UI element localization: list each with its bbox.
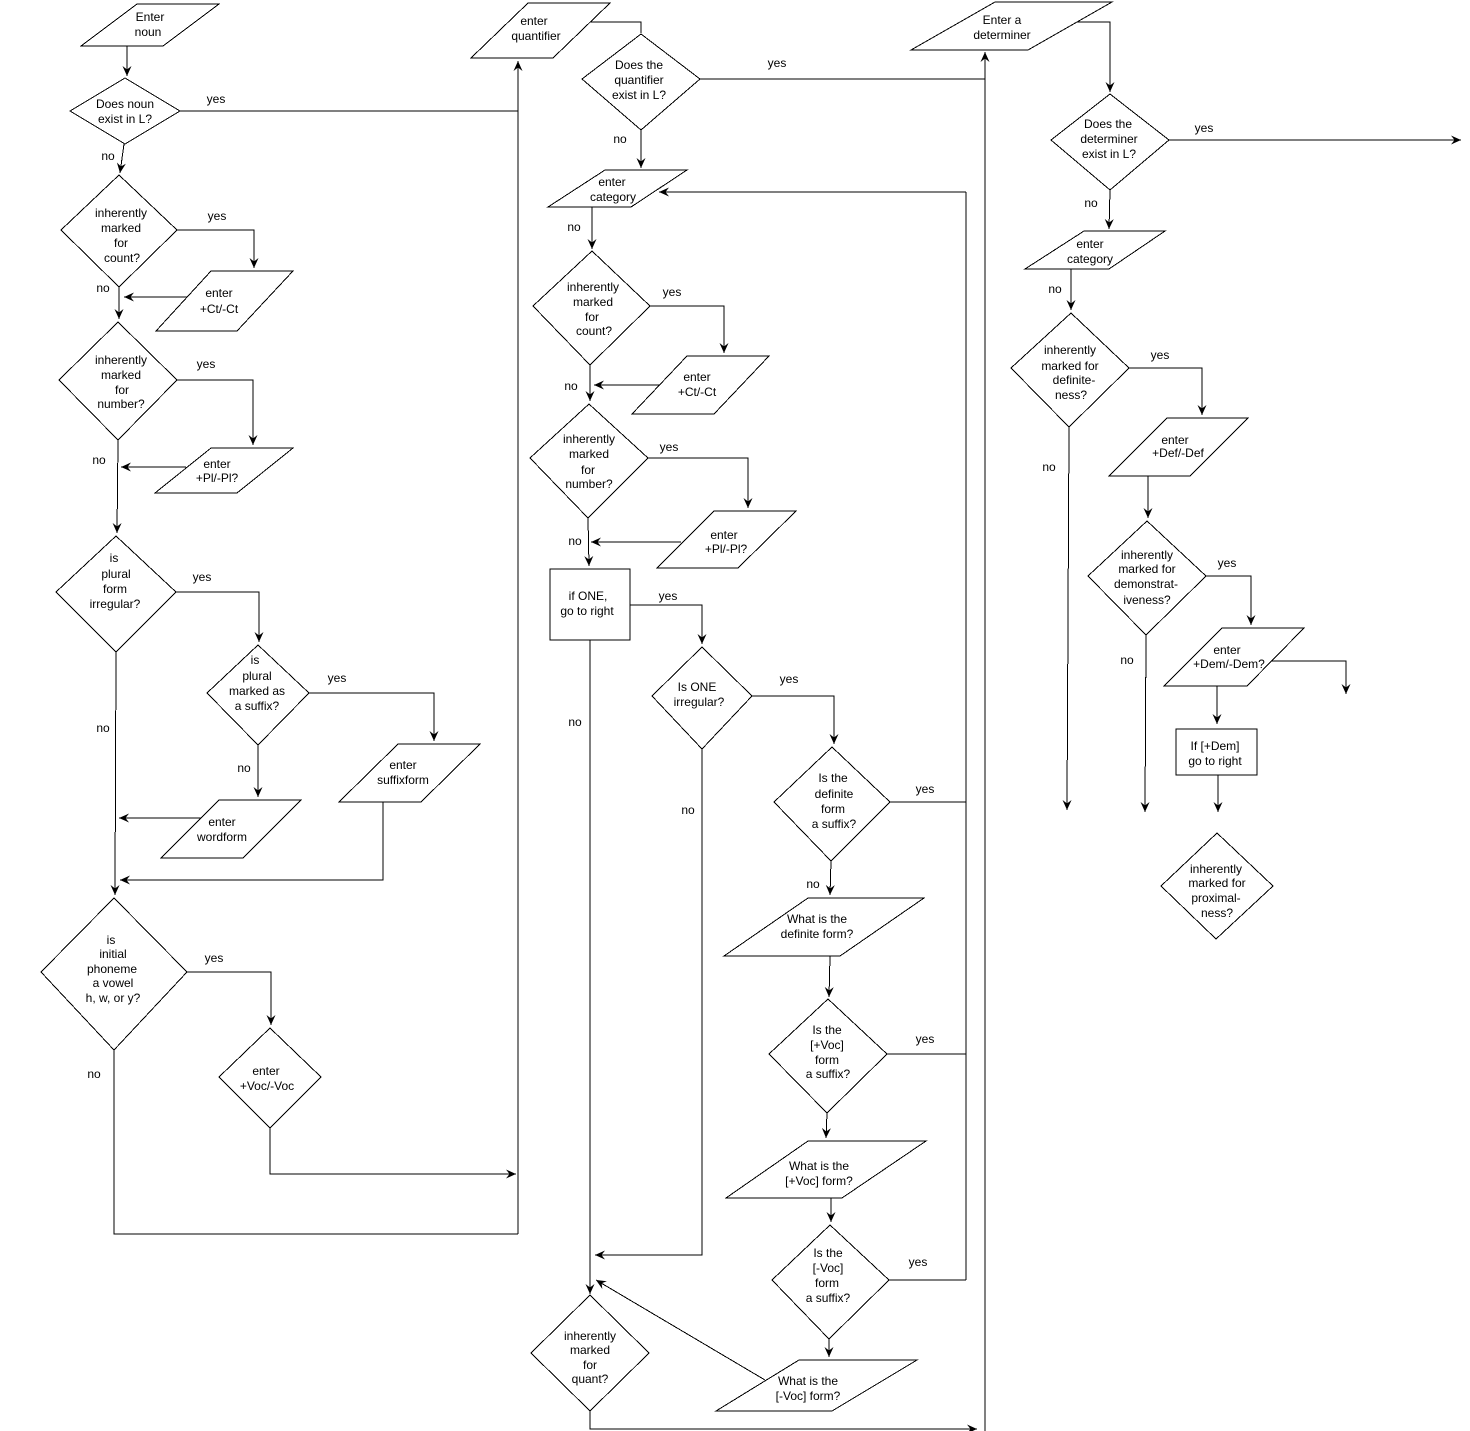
decision inherently marked for number? (noun) bbox=[59, 322, 177, 440]
parallelogram enter +Def/-Def bbox=[1109, 418, 1248, 476]
wire yes from Does the determiner exist (exit right) bbox=[1169, 139, 1461, 141]
wire yes from definite form a suffix? bbox=[890, 801, 966, 803]
svg-text:no: no bbox=[1084, 196, 1098, 210]
decision inherently marked for count? (noun) bbox=[61, 175, 177, 287]
wire enter +Dem/-Dem? down bbox=[1216, 686, 1218, 724]
svg-text:go to right: go to right bbox=[560, 604, 614, 618]
svg-text:count?: count? bbox=[104, 251, 140, 265]
svg-text:no: no bbox=[564, 379, 578, 393]
svg-text:inherently: inherently bbox=[1121, 548, 1173, 562]
wire yes to enter +Voc/-Voc bbox=[187, 972, 271, 1025]
svg-text:no: no bbox=[806, 877, 820, 891]
wire enter +Pl/-Pl? join (quantifier) bbox=[591, 541, 681, 543]
decision Does the determiner exist in L? bbox=[1051, 94, 1169, 190]
decision is initial phoneme a vowel h, w, or y? bbox=[41, 898, 187, 1050]
svg-text:+Ct/-Ct: +Ct/-Ct bbox=[678, 385, 717, 399]
svg-text:a vowel: a vowel bbox=[93, 976, 134, 990]
wire yes to enter +Def/-Def bbox=[1129, 368, 1202, 415]
svg-text:no: no bbox=[1120, 653, 1134, 667]
svg-text:ness?: ness? bbox=[1201, 906, 1233, 920]
parallelogram Enter noun bbox=[81, 4, 219, 46]
svg-text:for: for bbox=[585, 310, 599, 324]
wire return into enter category (quantifier) bbox=[659, 191, 966, 193]
svg-text:marked as: marked as bbox=[229, 684, 285, 698]
wire no from Is ONE irregular? bbox=[595, 749, 702, 1255]
svg-text:no: no bbox=[92, 453, 106, 467]
svg-text:What is the: What is the bbox=[789, 1159, 849, 1173]
parallelogram What is the definite form? bbox=[724, 898, 924, 956]
svg-text:no: no bbox=[237, 761, 251, 775]
svg-text:yes: yes bbox=[207, 92, 226, 106]
decision is plural marked as a suffix? bbox=[207, 645, 309, 745]
svg-text:enter: enter bbox=[203, 457, 230, 471]
svg-text:yes: yes bbox=[1218, 556, 1237, 570]
svg-text:yes: yes bbox=[663, 285, 682, 299]
svg-text:no: no bbox=[1048, 282, 1062, 296]
decision Is the [-Voc] form a suffix? bbox=[772, 1225, 889, 1339]
wire What is the [+Voc] form? down bbox=[830, 1198, 832, 1222]
wire yes to enter +Ct/-Ct (noun) bbox=[177, 230, 254, 268]
svg-text:[-Voc] form?: [-Voc] form? bbox=[776, 1389, 841, 1403]
parallelogram enter +Pl/-Pl? (noun) bbox=[155, 448, 293, 493]
process enter +Voc/-Voc (diamond) bbox=[219, 1028, 321, 1128]
svg-text:enter: enter bbox=[389, 758, 416, 772]
wire enter +Voc/-Voc to riser bbox=[270, 1128, 516, 1174]
parallelogram enter wordform bbox=[161, 800, 301, 858]
svg-text:exist in L?: exist in L? bbox=[1082, 147, 1136, 161]
svg-text:inherently: inherently bbox=[1190, 862, 1242, 876]
wire no from Does the determiner exist bbox=[1109, 190, 1110, 229]
svg-text:inherently: inherently bbox=[1044, 343, 1096, 357]
svg-text:yes: yes bbox=[660, 440, 679, 454]
svg-text:irregular?: irregular? bbox=[674, 695, 725, 709]
decision Is the [+Voc] form a suffix? bbox=[769, 999, 887, 1113]
svg-text:+Ct/-Ct: +Ct/-Ct bbox=[200, 302, 239, 316]
svg-text:marked for: marked for bbox=[1188, 876, 1245, 890]
svg-text:no: no bbox=[1042, 460, 1056, 474]
svg-text:no: no bbox=[101, 149, 115, 163]
wire yes to enter +Pl/-Pl? (quantifier) bbox=[648, 458, 748, 508]
svg-text:no: no bbox=[567, 220, 581, 234]
svg-text:quant?: quant? bbox=[572, 1372, 609, 1386]
svg-text:definite form?: definite form? bbox=[781, 927, 854, 941]
parallelogram enter +Pl/-Pl? (quantifier) bbox=[657, 511, 796, 568]
svg-text:is: is bbox=[251, 653, 260, 667]
parallelogram enter quantifier bbox=[471, 3, 610, 58]
svg-text:inherently: inherently bbox=[95, 353, 147, 367]
svg-text:exist in L?: exist in L? bbox=[612, 88, 666, 102]
parallelogram Enter a determiner bbox=[911, 2, 1112, 50]
svg-text:enter: enter bbox=[520, 14, 547, 28]
svg-text:no: no bbox=[568, 715, 582, 729]
wire Enter noun to Does noun exist bbox=[126, 46, 128, 76]
wire no to What is the definite form? bbox=[830, 861, 831, 895]
svg-text:form: form bbox=[103, 582, 127, 596]
wire yes from [+Voc] form a suffix? bbox=[887, 1053, 966, 1055]
svg-text:Is ONE: Is ONE bbox=[678, 680, 717, 694]
svg-text:ness?: ness? bbox=[1055, 388, 1087, 402]
parallelogram enter +Ct/-Ct (noun) bbox=[156, 271, 293, 331]
svg-text:no: no bbox=[96, 281, 110, 295]
wire enter +Dem/-Dem? right (dangling) bbox=[1271, 661, 1346, 694]
svg-text:definite: definite bbox=[815, 787, 854, 801]
process if ONE, go to right bbox=[550, 569, 630, 640]
svg-text:no: no bbox=[568, 534, 582, 548]
wire enter quantifier to Does the quantifier exist bbox=[590, 22, 641, 33]
svg-text:enter: enter bbox=[1076, 237, 1103, 251]
svg-text:go to right: go to right bbox=[1188, 754, 1242, 768]
svg-text:+Voc/-Voc: +Voc/-Voc bbox=[240, 1079, 294, 1093]
wire no from count? (quantifier) bbox=[589, 365, 591, 401]
svg-text:initial: initial bbox=[99, 947, 126, 961]
svg-text:iveness?: iveness? bbox=[1123, 593, 1171, 607]
svg-text:proximal-: proximal- bbox=[1191, 891, 1240, 905]
svg-text:marked: marked bbox=[569, 447, 609, 461]
svg-text:inherently: inherently bbox=[567, 280, 619, 294]
svg-text:no: no bbox=[613, 132, 627, 146]
wire If [+Dem] down bbox=[1217, 775, 1219, 812]
svg-text:for: for bbox=[115, 383, 129, 397]
wire no from if ONE to inherently marked for quant? bbox=[589, 640, 591, 1294]
svg-text:yes: yes bbox=[1151, 348, 1170, 362]
svg-text:marked for: marked for bbox=[1041, 359, 1098, 373]
wire yes to enter +Pl/-Pl? (noun) bbox=[177, 380, 253, 445]
decision inherently marked for quant? bbox=[531, 1295, 649, 1411]
parallelogram enter +Ct/-Ct (quantifier) bbox=[632, 356, 769, 414]
decision inherently marked for proximal-ness? bbox=[1161, 833, 1273, 939]
svg-text:Enter: Enter bbox=[136, 10, 165, 24]
decision inherently marked for number? (quantifier) bbox=[530, 404, 648, 518]
svg-text:yes: yes bbox=[205, 951, 224, 965]
svg-text:plural: plural bbox=[101, 567, 130, 581]
wire feedback drop (x=966) bbox=[965, 192, 967, 1280]
wire yes from [-Voc] form a suffix? bbox=[889, 1279, 966, 1281]
svg-text:enter: enter bbox=[710, 528, 737, 542]
svg-text:number?: number? bbox=[565, 477, 613, 491]
svg-text:form: form bbox=[815, 1276, 839, 1290]
svg-text:enter: enter bbox=[205, 286, 232, 300]
decision inherently marked for demonstrat-iveness? bbox=[1088, 521, 1206, 635]
svg-text:yes: yes bbox=[916, 782, 935, 796]
svg-text:category: category bbox=[590, 190, 636, 204]
svg-text:Does the: Does the bbox=[1084, 117, 1132, 131]
decision Does noun exist in L? bbox=[70, 78, 180, 144]
wire no from enter category (quantifier) bbox=[591, 207, 593, 249]
svg-text:yes: yes bbox=[768, 56, 787, 70]
svg-text:for: for bbox=[581, 463, 595, 477]
wire What is the [-Voc] form? return diagonal bbox=[596, 1280, 765, 1380]
wire yes to enter +Dem/-Dem? bbox=[1206, 576, 1251, 625]
svg-text:phoneme: phoneme bbox=[87, 962, 137, 976]
svg-text:category: category bbox=[1067, 252, 1113, 266]
svg-text:definite-: definite- bbox=[1053, 373, 1096, 387]
svg-text:for: for bbox=[583, 1358, 597, 1372]
svg-text:no: no bbox=[87, 1067, 101, 1081]
svg-text:quantifier: quantifier bbox=[511, 29, 560, 43]
process If [+Dem] go to right bbox=[1176, 729, 1257, 775]
decision Is ONE irregular? bbox=[652, 647, 752, 749]
svg-text:irregular?: irregular? bbox=[90, 597, 141, 611]
svg-text:h, w, or y?: h, w, or y? bbox=[86, 991, 141, 1005]
svg-text:inherently: inherently bbox=[564, 1329, 616, 1343]
svg-text:+Dem/-Dem?: +Dem/-Dem? bbox=[1193, 657, 1265, 671]
svg-text:a suffix?: a suffix? bbox=[806, 1067, 851, 1081]
svg-text:enter: enter bbox=[208, 815, 235, 829]
svg-text:wordform: wordform bbox=[196, 830, 247, 844]
svg-text:+Def/-Def: +Def/-Def bbox=[1152, 446, 1204, 460]
wire yes to enter suffixform bbox=[309, 693, 434, 741]
svg-text:count?: count? bbox=[576, 324, 612, 338]
wire no to enter wordform bbox=[257, 745, 259, 797]
svg-text:enter: enter bbox=[1213, 643, 1240, 657]
svg-text:demonstrat-: demonstrat- bbox=[1114, 577, 1178, 591]
wire enter +Ct/-Ct join (noun) bbox=[124, 296, 187, 298]
svg-text:a suffix?: a suffix? bbox=[235, 699, 280, 713]
wire no spine from irregular? to initial phoneme bbox=[115, 652, 116, 895]
parallelogram enter category (determiner) bbox=[1025, 231, 1165, 269]
svg-text:determiner: determiner bbox=[1080, 132, 1137, 146]
svg-text:no: no bbox=[681, 803, 695, 817]
decision inherently marked for count? (quantifier) bbox=[533, 251, 650, 365]
wire no from number? (quantifier) bbox=[588, 518, 589, 566]
wire yes from Does the quantifier exist bbox=[700, 78, 985, 80]
svg-text:plural: plural bbox=[242, 669, 271, 683]
svg-text:yes: yes bbox=[916, 1032, 935, 1046]
svg-text:yes: yes bbox=[780, 672, 799, 686]
svg-text:number?: number? bbox=[97, 397, 145, 411]
svg-text:no: no bbox=[96, 721, 110, 735]
svg-text:determiner: determiner bbox=[973, 28, 1030, 42]
decision Is the definite form a suffix? bbox=[774, 747, 890, 861]
wire no from number? (noun) bbox=[117, 440, 118, 533]
svg-text:form: form bbox=[821, 802, 845, 816]
decision is plural form irregular? bbox=[56, 536, 176, 652]
wire What is the definite form? down bbox=[829, 956, 830, 997]
wire [+Voc] suffix? down bbox=[826, 1113, 827, 1138]
svg-text:+Pl/-Pl?: +Pl/-Pl? bbox=[196, 471, 239, 485]
svg-text:marked: marked bbox=[570, 1343, 610, 1357]
svg-text:is: is bbox=[110, 551, 119, 565]
svg-text:marked: marked bbox=[573, 295, 613, 309]
svg-text:enter: enter bbox=[683, 370, 710, 384]
svg-text:Is the: Is the bbox=[818, 771, 848, 785]
svg-text:Is the: Is the bbox=[813, 1246, 843, 1260]
decision Does the quantifier exist in L? bbox=[582, 34, 700, 130]
svg-text:inherently: inherently bbox=[563, 432, 615, 446]
svg-text:for: for bbox=[114, 236, 128, 250]
svg-text:a suffix?: a suffix? bbox=[806, 1291, 851, 1305]
wire riser to enter quantifier bbox=[517, 61, 519, 1234]
wire [-Voc] suffix? down bbox=[828, 1339, 830, 1357]
wire determiner riser bbox=[984, 52, 986, 1431]
svg-text:yes: yes bbox=[208, 209, 227, 223]
svg-text:exist in L?: exist in L? bbox=[98, 112, 152, 126]
wire quant? to determiner riser bbox=[590, 1411, 977, 1429]
svg-text:noun: noun bbox=[135, 25, 162, 39]
svg-text:If [+Dem]: If [+Dem] bbox=[1190, 739, 1239, 753]
parallelogram enter +Dem/-Dem? bbox=[1164, 628, 1304, 686]
wire no from initial phoneme to riser bbox=[114, 1050, 518, 1234]
wire yes to enter +Ct/-Ct (quantifier) bbox=[650, 306, 724, 353]
svg-text:quantifier: quantifier bbox=[614, 73, 663, 87]
wire enter suffixform return bbox=[120, 802, 383, 880]
wire enter +Pl/-Pl? join (noun) bbox=[121, 466, 186, 468]
svg-text:form: form bbox=[815, 1053, 839, 1067]
svg-text:enter: enter bbox=[598, 175, 625, 189]
svg-text:marked for: marked for bbox=[1118, 562, 1175, 576]
parallelogram What is the [+Voc] form? bbox=[726, 1141, 926, 1198]
svg-text:Is the: Is the bbox=[812, 1023, 842, 1037]
svg-text:marked: marked bbox=[101, 221, 141, 235]
svg-text:yes: yes bbox=[1195, 121, 1214, 135]
wire enter +Ct/-Ct join (quantifier) bbox=[594, 384, 660, 386]
svg-text:What is the: What is the bbox=[778, 1374, 838, 1388]
svg-text:if ONE,: if ONE, bbox=[569, 589, 608, 603]
parallelogram enter category (quantifier) bbox=[548, 170, 687, 207]
wire no from count? (noun) bbox=[118, 287, 120, 319]
wire no from definite-ness? (dangling) bbox=[1067, 427, 1069, 810]
wire enter +Def/-Def down bbox=[1147, 476, 1149, 518]
svg-text:yes: yes bbox=[328, 671, 347, 685]
svg-text:Does the: Does the bbox=[615, 58, 663, 72]
svg-text:marked: marked bbox=[101, 368, 141, 382]
wire yes to Is the definite form a suffix? bbox=[752, 696, 834, 744]
wire yes to is plural marked as a suffix? bbox=[176, 592, 259, 642]
svg-text:enter: enter bbox=[252, 1064, 279, 1078]
svg-text:yes: yes bbox=[197, 357, 216, 371]
svg-text:a suffix?: a suffix? bbox=[812, 817, 857, 831]
svg-text:is: is bbox=[107, 933, 116, 947]
parallelogram What is the [-Voc] form? bbox=[716, 1360, 917, 1411]
wire no from Does noun exist bbox=[120, 144, 124, 173]
svg-text:[+Voc]: [+Voc] bbox=[810, 1038, 844, 1052]
decision inherently marked for definite-ness? bbox=[1011, 313, 1129, 427]
svg-text:yes: yes bbox=[909, 1255, 928, 1269]
svg-text:Does noun: Does noun bbox=[96, 97, 154, 111]
svg-text:Enter a: Enter a bbox=[983, 13, 1022, 27]
svg-text:+Pl/-Pl?: +Pl/-Pl? bbox=[705, 542, 748, 556]
wire no from Does the quantifier exist bbox=[640, 130, 642, 168]
wire yes from if ONE to Is ONE irregular? bbox=[630, 605, 702, 644]
svg-text:[-Voc]: [-Voc] bbox=[813, 1261, 844, 1275]
wire Enter a determiner to Does the determiner exist bbox=[1077, 22, 1110, 92]
wire no from enter category (determiner) bbox=[1070, 269, 1072, 310]
svg-text:yes: yes bbox=[193, 570, 212, 584]
svg-text:inherently: inherently bbox=[95, 206, 147, 220]
svg-text:suffixform: suffixform bbox=[377, 773, 429, 787]
svg-text:[+Voc] form?: [+Voc] form? bbox=[785, 1174, 853, 1188]
parallelogram enter suffixform bbox=[339, 744, 480, 802]
wire yes from Does noun exist (to enter quantifier riser) bbox=[180, 110, 518, 112]
wire no from demonstrat-iveness? (dangling) bbox=[1145, 635, 1146, 812]
svg-text:What is the: What is the bbox=[787, 912, 847, 926]
svg-text:yes: yes bbox=[659, 589, 678, 603]
wire enter wordform join bbox=[119, 817, 201, 819]
svg-text:enter: enter bbox=[1161, 433, 1188, 447]
